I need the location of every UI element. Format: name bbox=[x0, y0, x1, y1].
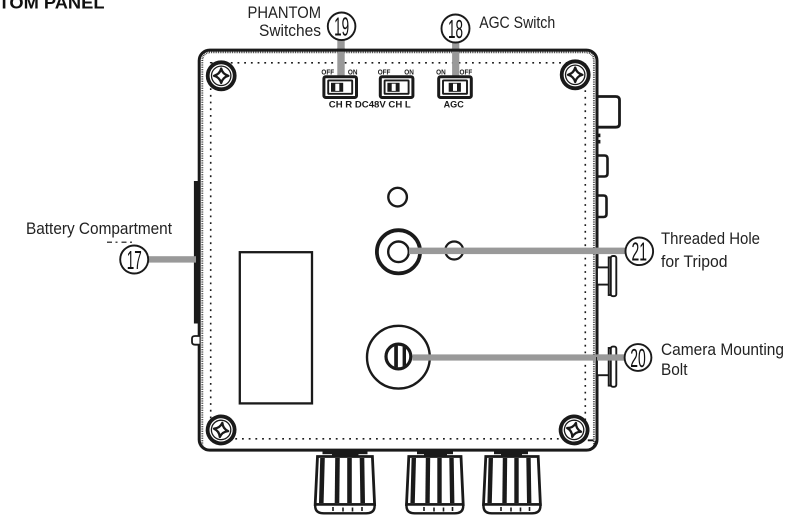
connector tab small upper (right side) bbox=[598, 156, 608, 177]
callout bar 21 bbox=[409, 248, 626, 255]
panel body outline bbox=[199, 50, 597, 450]
svg-text:20: 20 bbox=[630, 343, 646, 373]
callout bar 18 bbox=[452, 42, 459, 77]
svg-text:Camera Mounting: Camera Mounting bbox=[661, 341, 784, 359]
knob 3 stub bbox=[494, 451, 528, 456]
connector tab small lower (right side) bbox=[598, 196, 607, 218]
svg-text:OFF: OFF bbox=[378, 67, 391, 76]
svg-text:PHANTOM: PHANTOM bbox=[248, 4, 322, 22]
svg-text:CH R DC48V CH L: CH R DC48V CH L bbox=[329, 100, 412, 110]
svg-text:for Tripod: for Tripod bbox=[661, 253, 728, 271]
circled 17 bbox=[120, 245, 148, 275]
svg-text:Battery Compartment: Battery Compartment bbox=[26, 220, 172, 238]
panel inner stitched edge (fine dots) bbox=[202, 52, 594, 446]
svg-text:ON: ON bbox=[436, 67, 446, 76]
svg-text:AGC Switch: AGC Switch bbox=[479, 14, 555, 32]
threaded hole outer bbox=[377, 230, 420, 273]
thumbscrew bracket 20 (right edge) bbox=[597, 347, 616, 387]
thumbscrew bracket 21 (right edge) bbox=[597, 256, 616, 296]
threaded hole inner bbox=[388, 242, 409, 263]
svg-text:Bolt: Bolt bbox=[661, 361, 688, 379]
svg-text:TOM PANEL: TOM PANEL bbox=[0, 0, 105, 13]
small circle right of threaded hole bbox=[445, 242, 463, 260]
callout bar 19 bbox=[337, 39, 344, 76]
svg-text:Switches: Switches bbox=[259, 22, 321, 40]
svg-text:OFF: OFF bbox=[460, 67, 473, 76]
svg-text:AGC: AGC bbox=[444, 100, 465, 110]
camera bolt outer circle bbox=[367, 326, 430, 389]
faint dashed mark under Battery Compartment bbox=[107, 241, 135, 243]
circled 20 bbox=[625, 343, 652, 373]
callout bar 20 bbox=[413, 354, 626, 360]
svg-text:19: 19 bbox=[334, 12, 349, 42]
knob 2 stub bbox=[417, 451, 453, 456]
battery door latch bbox=[192, 336, 200, 345]
screw top-left bbox=[208, 62, 235, 89]
inner dotted border rectangle bbox=[211, 63, 586, 439]
border patch over bar 19 bbox=[337, 49, 345, 52]
hole small circle bbox=[388, 188, 407, 207]
svg-text:ON: ON bbox=[348, 67, 358, 76]
switch AGC bbox=[439, 77, 472, 98]
svg-text:18: 18 bbox=[448, 14, 463, 44]
svg-text:OFF: OFF bbox=[321, 67, 334, 76]
screw bottom-left bbox=[205, 414, 236, 445]
screw bottom-right bbox=[558, 413, 591, 446]
battery compartment door rectangle bbox=[240, 252, 312, 403]
callout bar 20 overlay (bar passes over bracket) bbox=[597, 354, 626, 360]
callout bar 17 bbox=[148, 256, 197, 262]
inner corner seam arc (bottom-right) bbox=[588, 440, 596, 450]
circled 18 bbox=[442, 14, 470, 44]
connector tab large (right side, behind panel) bbox=[598, 97, 620, 128]
svg-text:Threaded Hole: Threaded Hole bbox=[661, 230, 760, 248]
switch CH R (phantom right) bbox=[324, 77, 357, 98]
border patch over bar 18 bbox=[452, 49, 460, 52]
camera bolt slot head bbox=[386, 343, 411, 370]
switch CH L (phantom left) bbox=[380, 77, 413, 98]
svg-text:ON: ON bbox=[404, 67, 414, 76]
knob 2 body bbox=[407, 457, 464, 514]
svg-text:17: 17 bbox=[127, 245, 142, 275]
knob 3 body bbox=[484, 457, 541, 514]
svg-text:21: 21 bbox=[632, 237, 648, 267]
knob 1 body bbox=[315, 457, 374, 514]
hinge dots right edge bbox=[597, 134, 600, 138]
circled 21 bbox=[626, 237, 654, 267]
battery door edge (thick left segment) bbox=[194, 181, 201, 324]
circled 19 bbox=[328, 12, 356, 42]
screw top-right bbox=[562, 61, 589, 88]
knob 1 stub bbox=[323, 451, 368, 456]
